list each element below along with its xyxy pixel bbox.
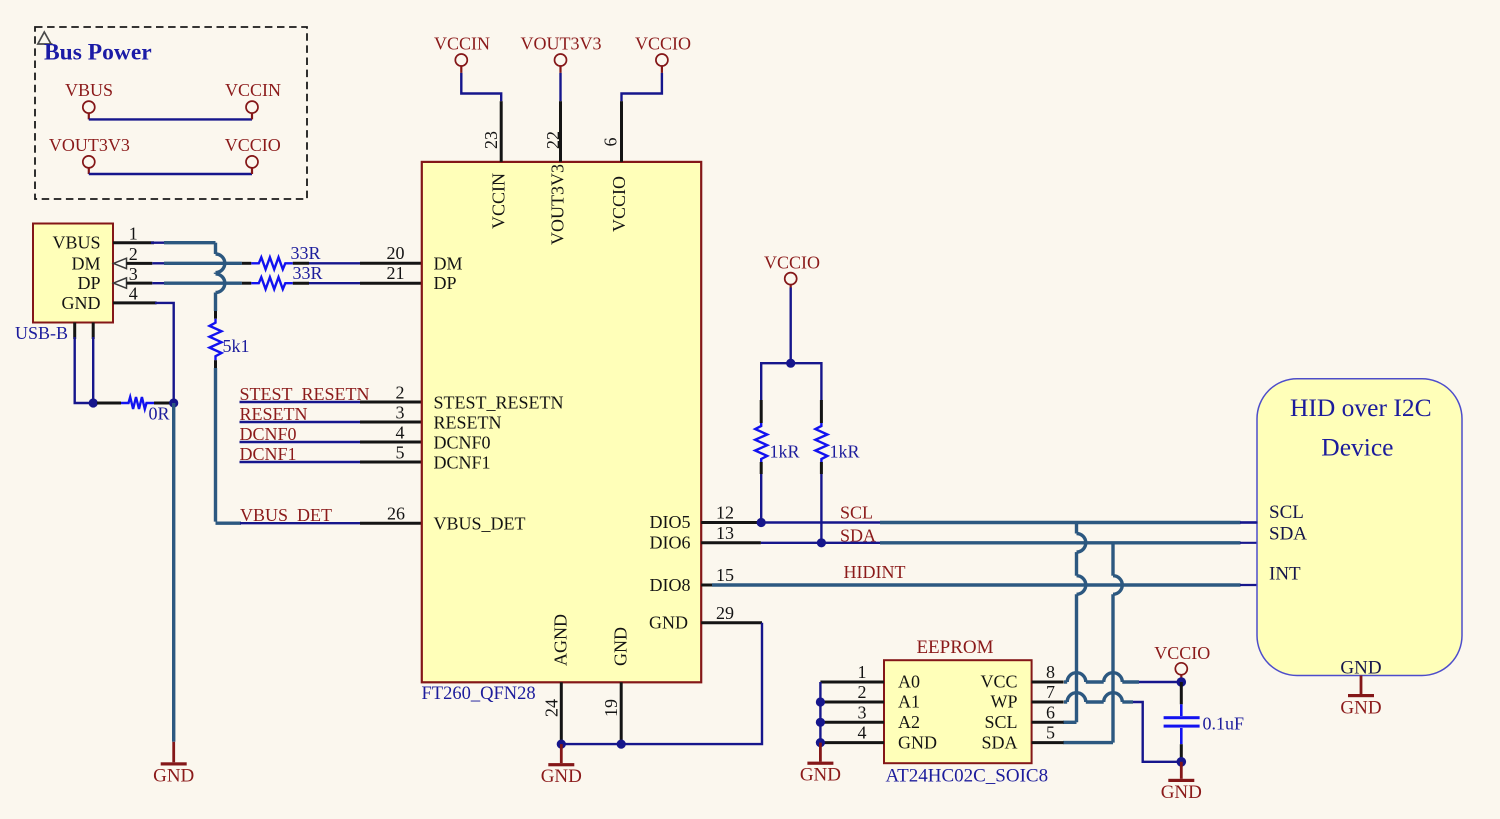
svg-text:VCCIN: VCCIN bbox=[489, 173, 509, 229]
pin name VCCIO (FT260) bbox=[609, 176, 629, 232]
pin name DM (FT260) bbox=[434, 253, 463, 273]
wire VOUT3V3 to VCCIO bbox=[89, 173, 252, 175]
svg-text:GND: GND bbox=[1340, 698, 1381, 719]
svg-text:1: 1 bbox=[858, 662, 867, 682]
power port VCCIO (cap) bbox=[1154, 643, 1210, 678]
svg-text:24: 24 bbox=[542, 699, 562, 717]
net label SCL bbox=[840, 503, 873, 523]
wire VBUS_DET from 5k1 down to row bbox=[216, 368, 242, 523]
svg-text:DP: DP bbox=[77, 273, 100, 293]
pin 5 DCNF1 of FT260 bbox=[360, 443, 422, 463]
wire R-SCL to SCL bbox=[760, 474, 762, 523]
designator AT24HC02C_SOIC8 bbox=[886, 766, 1049, 787]
pin 3 A2 of EEPROM bbox=[820, 702, 920, 732]
wire SCL dropper to EEPROM bbox=[1063, 523, 1086, 723]
svg-text:SCL: SCL bbox=[840, 503, 873, 523]
svg-text:FT260_QFN28: FT260_QFN28 bbox=[422, 684, 536, 704]
wire WP to ground rail with hops bbox=[1064, 693, 1177, 762]
pin name GND (FT260 pin19) bbox=[611, 627, 631, 666]
pin INT of HID device bbox=[1269, 564, 1301, 585]
svg-text:A2: A2 bbox=[898, 712, 920, 732]
svg-text:1kR: 1kR bbox=[770, 442, 800, 462]
pin 4 GND of USB-B bbox=[113, 284, 157, 304]
wire VCCIO down to split bbox=[790, 288, 792, 364]
power port VCCIO (bus power) bbox=[225, 135, 281, 174]
svg-text:EEPROM: EEPROM bbox=[916, 637, 993, 658]
pin name STEST_RESETN (FT260) bbox=[434, 393, 564, 413]
pin name DIO5 (FT260) bbox=[650, 512, 691, 532]
svg-text:VOUT3V3: VOUT3V3 bbox=[521, 34, 602, 54]
svg-text:3: 3 bbox=[858, 702, 867, 722]
pin 22 VOUT3V3 of FT260 bbox=[543, 101, 563, 162]
wire VBUS_DET to FT260 pin 26 bbox=[240, 522, 360, 524]
wire SCL to HID device bbox=[761, 521, 1257, 523]
pin 5 SDA of EEPROM bbox=[981, 723, 1063, 753]
svg-text:VCCIN: VCCIN bbox=[225, 80, 281, 100]
svg-text:5: 5 bbox=[1046, 723, 1055, 743]
svg-text:26: 26 bbox=[387, 504, 405, 524]
svg-text:7: 7 bbox=[1046, 682, 1055, 702]
resistor R-shield 0R bbox=[97, 397, 170, 424]
IC U1 FT260_QFN28 body bbox=[422, 162, 701, 682]
pin 29 GND of FT260 bbox=[701, 603, 762, 623]
pin 4 DCNF0 of FT260 bbox=[360, 423, 422, 443]
ground symbol GND (HID) bbox=[1340, 694, 1381, 719]
power port VCCIO (pullups) bbox=[764, 253, 820, 288]
wire DCNF0 bbox=[240, 441, 361, 443]
junction SCL pullup bbox=[757, 518, 766, 527]
pin 6 SCL of EEPROM bbox=[984, 702, 1063, 732]
svg-text:DIO8: DIO8 bbox=[650, 575, 691, 595]
wire GND pin29 to bottom rail bbox=[561, 623, 762, 744]
wire VCC to VCCIO with hops bbox=[1064, 673, 1177, 682]
svg-text:4: 4 bbox=[858, 723, 867, 743]
svg-text:23: 23 bbox=[481, 131, 501, 149]
wire pullup rail bbox=[761, 363, 821, 401]
svg-text:DCNF0: DCNF0 bbox=[434, 433, 491, 453]
svg-text:VOUT3V3: VOUT3V3 bbox=[548, 164, 568, 245]
svg-text:VCCIO: VCCIO bbox=[609, 176, 629, 232]
pin name AGND (FT260) bbox=[551, 614, 571, 666]
pin name DIO6 (FT260) bbox=[650, 533, 691, 553]
wire STEST_RESETN bbox=[240, 401, 361, 403]
capacitor C1 0.1uF bbox=[1164, 682, 1200, 762]
pin 3 DP of USB-B with input arrow bbox=[114, 264, 153, 288]
svg-text:0.1uF: 0.1uF bbox=[1203, 714, 1245, 734]
svg-text:13: 13 bbox=[716, 523, 734, 543]
pin 4 GND of EEPROM bbox=[820, 723, 937, 753]
svg-text:INT: INT bbox=[1269, 564, 1301, 585]
pin 15 DIO8 of FT260 bbox=[701, 565, 734, 585]
pin GND of HID device bbox=[1340, 658, 1381, 695]
svg-text:VBUS: VBUS bbox=[52, 233, 100, 253]
junction GND pin4 bbox=[816, 738, 825, 747]
svg-text:GND: GND bbox=[611, 627, 631, 666]
svg-text:6: 6 bbox=[601, 138, 621, 147]
wire R-SDA to SDA bbox=[820, 474, 822, 543]
svg-text:22: 22 bbox=[543, 131, 563, 149]
wire HIDINT to HID device bbox=[712, 583, 1258, 586]
pin SDA of HID device bbox=[1269, 524, 1307, 545]
svg-text:HID over I2C: HID over I2C bbox=[1290, 393, 1432, 422]
svg-text:2: 2 bbox=[396, 383, 405, 403]
resistor R-VBUS 5k1 bbox=[210, 311, 250, 368]
resistor R-SCL 1kR bbox=[755, 400, 799, 474]
junction A1 bbox=[816, 697, 825, 706]
svg-text:GND: GND bbox=[898, 732, 937, 752]
Bus Power dashed box bbox=[35, 27, 307, 199]
IC U2 EEPROM body bbox=[884, 660, 1032, 763]
pin 24 AGND of FT260 bbox=[542, 682, 562, 742]
pin name VOUT3V3 (FT260) bbox=[548, 164, 568, 245]
wire SDA to HID device bbox=[761, 542, 1258, 544]
resistor R-DM 33R bbox=[242, 243, 321, 269]
svg-text:12: 12 bbox=[716, 503, 734, 523]
svg-text:DM: DM bbox=[434, 253, 463, 273]
svg-text:VCCIO: VCCIO bbox=[635, 34, 691, 54]
svg-text:GND: GND bbox=[800, 765, 841, 786]
designator USB-B bbox=[15, 323, 68, 343]
svg-text:5k1: 5k1 bbox=[223, 336, 250, 356]
pin name GND (FT260 pin29) bbox=[649, 613, 688, 633]
junction cap top bbox=[1177, 677, 1187, 687]
svg-text:33R: 33R bbox=[291, 243, 321, 263]
svg-text:GND: GND bbox=[1340, 658, 1381, 679]
svg-text:GND: GND bbox=[541, 766, 582, 787]
net label VBUS_DET bbox=[240, 505, 332, 525]
svg-text:GND: GND bbox=[649, 613, 688, 633]
svg-text:5: 5 bbox=[396, 443, 405, 463]
shield pins of USB-B bbox=[75, 323, 94, 340]
net label HIDINT bbox=[844, 562, 906, 582]
pin SCL of HID device bbox=[1240, 502, 1304, 523]
svg-text:VBUS: VBUS bbox=[65, 80, 113, 100]
wire shield pins to junction bbox=[75, 337, 94, 403]
ground symbol GND (cap) bbox=[1161, 762, 1202, 803]
svg-text:A0: A0 bbox=[898, 672, 920, 692]
svg-text:DIO5: DIO5 bbox=[650, 512, 691, 532]
Bus Power title bbox=[44, 40, 152, 66]
pin 12 DIO5 of FT260 bbox=[701, 503, 757, 523]
svg-text:4: 4 bbox=[396, 423, 405, 443]
svg-text:GND: GND bbox=[1161, 782, 1202, 803]
pin name RESETN (FT260) bbox=[434, 413, 502, 433]
wire VCCIO to pin 6 bbox=[622, 73, 662, 101]
junction cap bottom bbox=[1177, 757, 1187, 767]
HID title bbox=[1290, 393, 1432, 462]
pin 6 VCCIO of FT260 bbox=[601, 101, 622, 162]
sheet corner triangle bbox=[38, 32, 53, 44]
HID over I2C Device body bbox=[1257, 379, 1462, 676]
pin 21 DP of FT260 bbox=[360, 263, 422, 283]
svg-text:Bus Power: Bus Power bbox=[44, 40, 152, 66]
svg-text:VBUS_DET: VBUS_DET bbox=[434, 514, 526, 534]
resistor R-SDA 1kR bbox=[815, 400, 859, 474]
svg-text:VCCIO: VCCIO bbox=[225, 135, 281, 155]
power port VOUT3V3 (top) bbox=[521, 34, 602, 73]
power port VOUT3V3 (bus power) bbox=[49, 135, 130, 174]
wire DP from pin3 to resistor bbox=[152, 282, 242, 284]
svg-text:1kR: 1kR bbox=[830, 442, 860, 462]
svg-text:SDA: SDA bbox=[981, 732, 1017, 752]
ground symbol GND (FT260) bbox=[541, 744, 582, 787]
svg-text:DM: DM bbox=[71, 253, 100, 273]
pin name DP (FT260) bbox=[434, 273, 457, 293]
svg-text:DP: DP bbox=[434, 273, 457, 293]
net label SDA bbox=[840, 526, 876, 546]
svg-text:SDA: SDA bbox=[1269, 524, 1307, 545]
net label DCNF0 bbox=[240, 424, 297, 444]
junction VCCIO split bbox=[786, 359, 795, 368]
pin 23 VCCIN of FT260 bbox=[481, 101, 501, 162]
svg-text:WP: WP bbox=[991, 692, 1018, 712]
wire DCNF1 bbox=[240, 461, 361, 463]
svg-text:2: 2 bbox=[858, 682, 867, 702]
svg-text:2: 2 bbox=[129, 244, 138, 264]
svg-text:VOUT3V3: VOUT3V3 bbox=[49, 135, 130, 155]
pin 1 VBUS of USB-B bbox=[113, 224, 154, 244]
svg-text:SCL: SCL bbox=[984, 712, 1017, 732]
comment EEPROM bbox=[916, 637, 993, 658]
pin 3 RESETN of FT260 bbox=[360, 403, 422, 423]
svg-text:HIDINT: HIDINT bbox=[844, 562, 906, 582]
wire VBUS from pin1 down with hops bbox=[151, 243, 225, 311]
wire DM to FT260 pin 20 bbox=[309, 262, 360, 264]
svg-text:SCL: SCL bbox=[1269, 502, 1304, 523]
junction SDA pullup bbox=[817, 538, 826, 547]
svg-text:AT24HC02C_SOIC8: AT24HC02C_SOIC8 bbox=[886, 766, 1049, 787]
pin 19 GND of FT260 bbox=[601, 682, 621, 742]
junction at 0R/GND net bbox=[169, 398, 178, 407]
power port VCCIO (top) bbox=[635, 34, 691, 73]
svg-text:VCC: VCC bbox=[980, 672, 1017, 692]
svg-text:29: 29 bbox=[716, 603, 734, 623]
wire SDA dropper to EEPROM bbox=[1063, 543, 1122, 743]
net label DCNF1 bbox=[240, 444, 297, 464]
svg-text:STEST_RESETN: STEST_RESETN bbox=[434, 393, 564, 413]
svg-text:6: 6 bbox=[1046, 702, 1055, 722]
wire VCCIN to pin 23 bbox=[461, 73, 501, 101]
svg-text:USB-B: USB-B bbox=[15, 323, 68, 343]
resistor R-DP 33R bbox=[242, 263, 323, 289]
svg-text:DCNF1: DCNF1 bbox=[434, 453, 491, 473]
net label RESETN bbox=[240, 404, 308, 424]
svg-text:33R: 33R bbox=[293, 263, 323, 283]
svg-text:1: 1 bbox=[129, 224, 138, 244]
pin 20 DM of FT260 bbox=[360, 243, 422, 263]
pin name VCCIN (FT260) bbox=[489, 173, 509, 229]
ground symbol GND (USB) bbox=[153, 742, 194, 787]
wire VOUT3V3 to pin 22 bbox=[559, 73, 561, 101]
pin 2 DM of USB-B with input arrow bbox=[114, 244, 153, 268]
wire GND net down to ground bbox=[172, 403, 175, 742]
pin 2 STEST_RESETN of FT260 bbox=[360, 383, 422, 403]
svg-text:20: 20 bbox=[387, 243, 405, 263]
pin name VBUS_DET (FT260) bbox=[434, 514, 526, 534]
pin name DCNF1 (FT260) bbox=[434, 453, 491, 473]
svg-text:AGND: AGND bbox=[551, 614, 571, 666]
net label STEST_RESETN bbox=[240, 384, 370, 404]
svg-text:21: 21 bbox=[387, 263, 405, 283]
pin name DIO8 (FT260) bbox=[650, 575, 691, 595]
power port VCCIN (bus power) bbox=[225, 80, 281, 119]
wire DM from pin2 to resistor bbox=[152, 262, 242, 264]
junction A2 bbox=[816, 718, 825, 727]
svg-text:GND: GND bbox=[153, 765, 194, 786]
junction at shield/0R bbox=[89, 398, 98, 407]
ground symbol GND (EEPROM) bbox=[800, 743, 841, 786]
svg-text:15: 15 bbox=[716, 565, 734, 585]
junction GND19 rail bbox=[617, 740, 626, 749]
svg-text:A1: A1 bbox=[898, 692, 920, 712]
svg-text:3: 3 bbox=[129, 264, 138, 284]
svg-text:RESETN: RESETN bbox=[434, 413, 502, 433]
svg-text:VCCIO: VCCIO bbox=[764, 253, 820, 273]
power port VCCIN (top) bbox=[434, 34, 490, 73]
svg-text:19: 19 bbox=[601, 699, 621, 717]
svg-text:VCCIN: VCCIN bbox=[434, 34, 490, 54]
connector J1 USB-B body bbox=[33, 224, 113, 323]
wire DP to FT260 pin 21 bbox=[309, 282, 360, 284]
svg-text:Device: Device bbox=[1321, 433, 1393, 462]
pin 26 VBUS_DET of FT260 bbox=[360, 504, 422, 524]
junction AGND rail bbox=[557, 740, 566, 749]
pin 8 VCC of EEPROM bbox=[980, 662, 1063, 692]
wire VBUS to VCCIN bbox=[89, 118, 252, 120]
svg-text:DIO6: DIO6 bbox=[650, 533, 691, 553]
pin 7 WP of EEPROM bbox=[991, 682, 1064, 712]
svg-text:0R: 0R bbox=[149, 404, 170, 424]
value label 0.1uF bbox=[1203, 714, 1245, 734]
svg-text:4: 4 bbox=[129, 284, 138, 304]
pin name DCNF0 (FT260) bbox=[434, 433, 491, 453]
wire RESETN bbox=[240, 421, 361, 423]
pin 1 A0 of EEPROM bbox=[820, 662, 920, 692]
svg-text:VCCIO: VCCIO bbox=[1154, 643, 1210, 663]
svg-text:8: 8 bbox=[1046, 662, 1055, 682]
designator FT260_QFN28 bbox=[422, 684, 536, 704]
wire EEPROM address rail bbox=[819, 682, 821, 743]
pin 2 A1 of EEPROM bbox=[820, 682, 920, 712]
svg-text:3: 3 bbox=[396, 403, 405, 423]
wire GND from USB pin4 down bbox=[155, 303, 174, 403]
svg-text:GND: GND bbox=[62, 293, 101, 313]
power port VBUS bbox=[65, 80, 113, 119]
pin 13 DIO6 of FT260 bbox=[701, 523, 761, 543]
